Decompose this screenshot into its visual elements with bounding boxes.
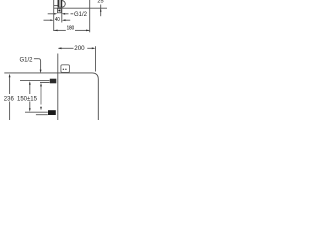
wire [65, 19, 70, 21]
node M [40, 83, 42, 87]
svg-text:200: 200 [74, 45, 85, 52]
wire [34, 58, 39, 60]
wire [54, 7, 107, 9]
wire [29, 83, 31, 95]
node A [58, 0, 62, 8]
wire [89, 0, 91, 32]
wire [61, 8, 63, 23]
svg-text:236: 236 [4, 97, 15, 103]
node E [54, 13, 57, 15]
node B [62, 1, 65, 8]
wire [54, 29, 66, 31]
node K [29, 81, 31, 85]
node D [61, 65, 70, 73]
wire [57, 54, 59, 121]
node L [40, 70, 42, 74]
node G [54, 30, 58, 32]
wire [29, 102, 31, 110]
wire [25, 111, 48, 113]
node C [58, 8, 62, 12]
wire [40, 81, 50, 83]
wire [39, 59, 41, 71]
svg-text:25: 25 [97, 0, 103, 5]
wire [44, 19, 51, 21]
wire [95, 46, 97, 71]
wire [20, 80, 50, 82]
svg-text:150±15: 150±15 [17, 97, 38, 103]
wire [87, 47, 94, 49]
wire [59, 47, 74, 49]
wire [40, 86, 42, 105]
wire [65, 13, 68, 15]
wire [53, 0, 55, 31]
wire [75, 29, 89, 31]
node H [100, 9, 102, 12]
node F [50, 19, 53, 21]
wire [36, 114, 48, 116]
svg-text:180: 180 [67, 25, 75, 32]
node O [48, 110, 56, 115]
svg-text:40: 40 [55, 17, 60, 24]
svg-text:G1/2: G1/2 [20, 57, 34, 63]
wire [54, 5, 59, 7]
wire [9, 102, 11, 121]
wire [9, 76, 11, 95]
node N [50, 79, 57, 84]
svg-text:G1/2: G1/2 [74, 12, 88, 18]
wire [71, 13, 74, 15]
node I [58, 47, 62, 49]
wire [4, 73, 98, 120]
wire [48, 13, 55, 15]
wire [100, 5, 102, 17]
node J [9, 74, 11, 78]
